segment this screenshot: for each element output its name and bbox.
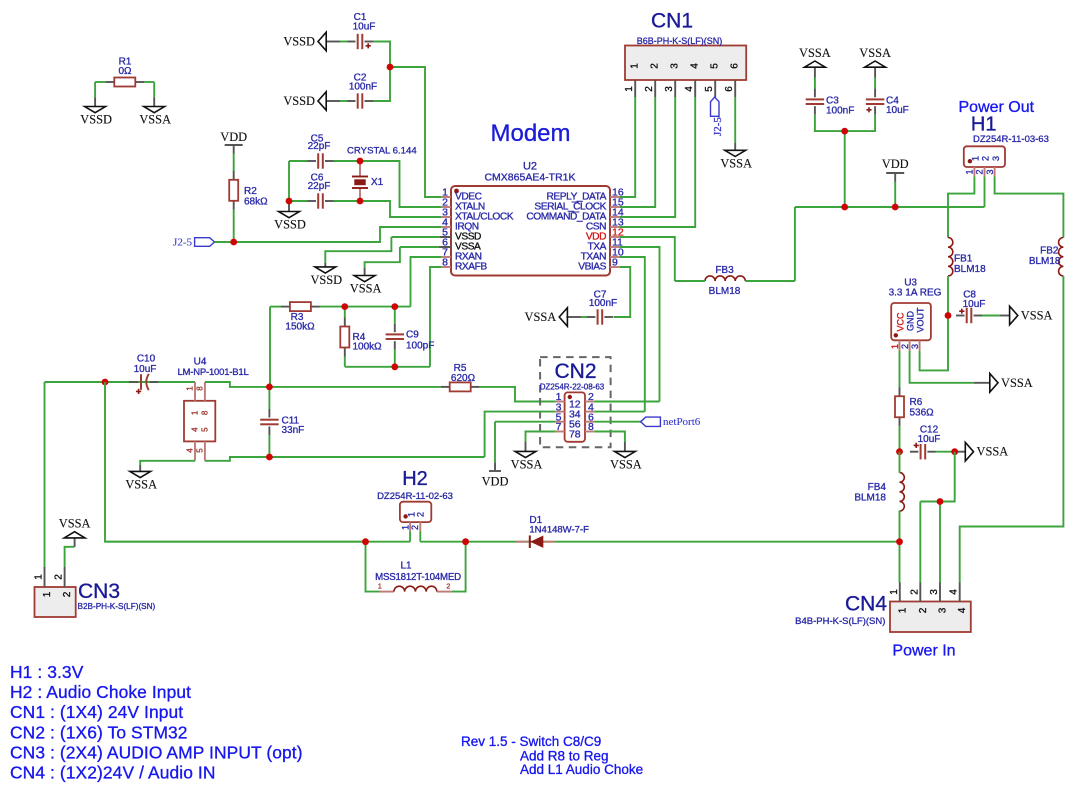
svg-text:2: 2 (909, 589, 920, 595)
wire (394, 307, 396, 324)
junction (896, 448, 903, 455)
svg-text:1: 1 (965, 169, 975, 174)
svg-text:CRYSTAL 6.144: CRYSTAL 6.144 (347, 146, 417, 157)
svg-text:Modem: Modem (490, 120, 570, 147)
global label netPort6 (641, 417, 661, 426)
svg-text:X1: X1 (371, 177, 384, 188)
wire (215, 227, 442, 242)
wire (bottom row left) (105, 541, 410, 543)
svg-text:Power In: Power In (892, 642, 955, 659)
svg-text:VSSA: VSSA (1021, 309, 1053, 323)
svg-text:DZ254R-11-03-63: DZ254R-11-03-63 (973, 134, 1049, 145)
wire (620, 247, 660, 402)
svg-text:100nF: 100nF (349, 82, 377, 93)
junction (937, 498, 944, 505)
power VDD (below CN2) (489, 470, 501, 472)
svg-text:VSSA: VSSA (1001, 376, 1033, 390)
capacitor C3 (814, 89, 816, 98)
svg-text:1: 1 (624, 86, 635, 92)
svg-text:100kΩ: 100kΩ (353, 342, 383, 353)
crystal X1 (359, 161, 361, 176)
svg-text:5: 5 (704, 86, 715, 92)
wire (CN2 pin5 to VDD) (495, 421, 555, 423)
svg-text:2: 2 (900, 344, 910, 349)
wire (936, 451, 955, 453)
svg-text:DZ254R-22-08-63: DZ254R-22-08-63 (540, 383, 605, 392)
wire (899, 426, 901, 452)
svg-text:2: 2 (975, 169, 985, 174)
svg-text:VDD: VDD (482, 475, 509, 489)
ground VSSA (C3) (814, 67, 816, 77)
svg-text:RXAFB: RXAFB (455, 262, 487, 273)
svg-text:6: 6 (724, 86, 735, 92)
ferrite bead FB3 (705, 276, 745, 281)
svg-text:4: 4 (684, 86, 695, 92)
ground VSSA (C4) (874, 67, 876, 77)
wire (270, 306, 281, 308)
svg-text:8: 8 (200, 410, 209, 415)
svg-text:3: 3 (985, 169, 995, 174)
ground VSSA (C8) (1010, 306, 1018, 325)
svg-text:2: 2 (981, 156, 991, 161)
resistor R1 (105, 81, 114, 83)
svg-text:150kΩ: 150kΩ (285, 321, 315, 332)
wire (334, 201, 442, 217)
svg-text:VBIAS: VBIAS (578, 262, 606, 273)
svg-text:10uF: 10uF (134, 364, 157, 375)
svg-text:1: 1 (42, 591, 53, 597)
svg-text:H1: H1 (971, 114, 997, 136)
wire (947, 276, 949, 316)
svg-text:VDD: VDD (220, 130, 247, 144)
power VDD (R2 top) (225, 144, 243, 146)
svg-text:VSSA: VSSA (799, 46, 831, 60)
svg-text:1N4148W-7-F: 1N4148W-7-F (529, 524, 589, 535)
capacitor C2 (347, 100, 356, 102)
wire (45, 381, 196, 383)
svg-text:R6: R6 (910, 397, 923, 408)
svg-text:netPort6: netPort6 (663, 416, 701, 428)
svg-text:4: 4 (690, 63, 701, 69)
svg-text:1: 1 (401, 525, 411, 530)
wire (899, 452, 901, 473)
svg-text:BLM18: BLM18 (854, 493, 886, 504)
junction (341, 303, 348, 310)
wire (C12 to CN4 gnd pins) (920, 452, 954, 502)
svg-text:7: 7 (556, 421, 562, 433)
svg-text:FB4: FB4 (868, 482, 887, 493)
svg-text:2: 2 (54, 574, 65, 580)
svg-text:4: 4 (191, 427, 200, 432)
svg-text:4: 4 (949, 589, 960, 595)
diode D1 (516, 541, 529, 543)
wire (734, 97, 736, 143)
svg-text:1: 1 (890, 344, 900, 349)
wire (105, 382, 366, 542)
svg-text:J2-5: J2-5 (712, 117, 724, 136)
junction (387, 64, 394, 71)
wire (U4 pin8 jog) (205, 382, 270, 387)
svg-text:J2-5: J2-5 (173, 236, 192, 248)
wire (VDD row) (795, 206, 985, 208)
resistor R4 (344, 318, 346, 327)
ground VSSA (U4 pin4) (139, 465, 141, 471)
wire (430, 267, 441, 367)
svg-text:CN2: CN2 (554, 360, 596, 383)
resistor R5 (441, 386, 450, 388)
svg-text:FB2: FB2 (1040, 245, 1059, 256)
ferrite bead FB1 (948, 238, 953, 277)
svg-text:BLM18: BLM18 (709, 286, 741, 297)
svg-text:VOUT: VOUT (916, 307, 926, 333)
wire (614, 267, 631, 317)
svg-text:VSSD: VSSD (274, 218, 306, 232)
wire (U4 pin5 jog) (205, 457, 270, 461)
power VDD (right) (886, 172, 904, 174)
svg-text:CN4: CN4 (845, 592, 887, 615)
ground VSSA (CN3 pin2) (74, 538, 76, 547)
ground VSSA (C12) (965, 442, 973, 461)
svg-text:1: 1 (630, 63, 641, 69)
svg-text:10uF: 10uF (963, 299, 986, 310)
wire (409, 531, 411, 541)
junction (945, 312, 952, 319)
wire (233, 210, 235, 242)
svg-text:4: 4 (957, 607, 968, 613)
svg-text:BLM18: BLM18 (954, 264, 986, 275)
junction (102, 379, 109, 386)
wire (814, 78, 816, 90)
wire (269, 307, 271, 387)
svg-text:3: 3 (670, 63, 681, 69)
capacitor C4 (874, 89, 876, 98)
wire (bottom row right) (420, 541, 899, 543)
wire (C11 bottom row) (269, 456, 484, 458)
svg-text:3: 3 (929, 589, 940, 595)
resistor R2 (233, 161, 235, 171)
ground VSSA (CN2 pin8) (624, 442, 626, 451)
wire (982, 315, 1000, 317)
svg-text:1: 1 (897, 607, 908, 613)
wire (899, 351, 901, 388)
wire (815, 115, 875, 131)
svg-text:5: 5 (195, 448, 204, 453)
global label J2-5 (IRQN) (195, 238, 215, 247)
svg-text:3: 3 (938, 607, 949, 613)
wire (526, 432, 556, 443)
svg-text:4: 4 (186, 448, 195, 453)
svg-text:H2: H2 (402, 468, 428, 490)
svg-text:1: 1 (971, 156, 981, 161)
svg-text:22pF: 22pF (308, 141, 331, 152)
svg-text:VSSD: VSSD (80, 113, 112, 127)
svg-text:BLM18: BLM18 (1029, 256, 1061, 267)
power symbol VSSA (C7) (566, 316, 581, 318)
junction (841, 128, 848, 135)
wire (269, 386, 440, 388)
svg-text:536Ω: 536Ω (910, 408, 935, 419)
global label J2-5 (CN1 pin5) (711, 97, 720, 116)
ground VSSD (crystal) (288, 201, 290, 212)
svg-text:9: 9 (612, 257, 618, 269)
svg-text:VSSA: VSSA (720, 157, 752, 171)
capacitor C7 (587, 316, 596, 318)
svg-text:1: 1 (889, 589, 900, 595)
ground VSSD (R1 pin1) (94, 97, 96, 106)
ground VSSA (U3 GND) (990, 374, 998, 393)
wire (94, 82, 96, 97)
capacitor C5 (308, 160, 317, 162)
junction (357, 158, 364, 165)
junction (841, 204, 848, 211)
svg-text:3: 3 (910, 344, 920, 349)
junction (362, 538, 369, 545)
svg-text:GND: GND (906, 311, 916, 332)
svg-text:2: 2 (62, 591, 73, 597)
wire (H1 pin3) (995, 176, 1064, 237)
wire (H1 pin2) (984, 176, 986, 207)
svg-text:LM-NP-1001-B1L: LM-NP-1001-B1L (177, 367, 248, 378)
wire (365, 247, 400, 268)
ground VSSA (R1 pin2) (153, 97, 155, 106)
svg-text:5: 5 (200, 427, 209, 432)
resistor R3 (281, 306, 290, 308)
svg-text:FB1: FB1 (954, 254, 973, 265)
svg-text:CN3: CN3 (78, 580, 120, 603)
svg-text:2: 2 (410, 525, 420, 530)
svg-text:3: 3 (991, 156, 1001, 161)
ground VSSA (CN2 pin7) (525, 442, 527, 451)
wire (95, 81, 105, 83)
svg-text:8: 8 (588, 421, 594, 433)
svg-text:68kΩ: 68kΩ (244, 197, 268, 208)
wire (CN3 pin2) (65, 547, 75, 567)
wire (345, 366, 430, 368)
svg-text:Rev 1.5 - Switch C8/C9: Rev 1.5 - Switch C8/C9 (461, 734, 601, 749)
svg-text:2: 2 (446, 584, 450, 591)
svg-text:R2: R2 (244, 186, 257, 197)
svg-text:10uF: 10uF (353, 22, 376, 33)
svg-text:VSSA: VSSA (125, 478, 157, 492)
ground VSSA (U2 pin6) (364, 268, 366, 276)
svg-text:C9: C9 (406, 329, 419, 340)
wire (U4 pin4 to gnd) (140, 461, 195, 465)
svg-text:0Ω: 0Ω (118, 66, 132, 77)
ferrite bead FB4 (900, 473, 905, 512)
capacitor C10 (129, 381, 138, 383)
wire (400, 246, 439, 248)
wire (844, 131, 846, 207)
wire (874, 78, 876, 90)
wire (FB2 to CN4 pin4) (960, 276, 1064, 583)
capacitor C12 (910, 451, 919, 453)
transformer U4 (184, 401, 215, 442)
capacitor C8 (956, 315, 965, 317)
svg-text:1: 1 (186, 386, 195, 391)
wire (CN2 pin3 from C11 row) (485, 412, 556, 457)
svg-text:CN3 : (2X4) AUDIO AMP INPUT (o: CN3 : (2X4) AUDIO AMP INPUT (opt) (10, 742, 303, 762)
connector CN2 (540, 357, 611, 447)
svg-text:1: 1 (34, 574, 45, 580)
wire (373, 42, 390, 102)
svg-text:VDD: VDD (882, 157, 909, 171)
wire (344, 307, 346, 318)
svg-text:1: 1 (378, 584, 382, 591)
svg-text:DZ254R-11-02-63: DZ254R-11-02-63 (377, 491, 453, 502)
svg-text:CN1 : (1X4) 24V Input: CN1 : (1X4) 24V Input (10, 702, 183, 722)
svg-text:VSSA: VSSA (525, 310, 557, 324)
wire (334, 161, 442, 207)
svg-text:2: 2 (650, 63, 661, 69)
svg-text:6: 6 (730, 63, 741, 69)
op-amp U2 modem IC CMX865AE4-TR1K (451, 186, 610, 276)
svg-text:2: 2 (918, 607, 929, 613)
ground VSSD (U2 pin5) (324, 263, 326, 267)
junction (896, 538, 903, 545)
svg-text:2: 2 (416, 512, 426, 517)
svg-text:100nF: 100nF (589, 298, 617, 309)
svg-text:100nF: 100nF (826, 106, 854, 117)
svg-text:VSSD: VSSD (310, 273, 342, 287)
svg-text:FB3: FB3 (715, 265, 734, 276)
svg-text:L1: L1 (400, 561, 412, 572)
wire (325, 237, 391, 263)
svg-text:1: 1 (191, 410, 200, 415)
power symbol VSSD (C2) (326, 100, 340, 102)
svg-text:100pF: 100pF (406, 341, 434, 352)
connector CN3 (35, 587, 76, 617)
svg-text:C10: C10 (137, 353, 156, 364)
svg-text:VSSD: VSSD (283, 94, 315, 108)
svg-text:VSSA: VSSA (59, 517, 91, 531)
svg-text:H1 : 3.3V: H1 : 3.3V (10, 662, 84, 682)
capacitor C1 (347, 41, 356, 43)
wire (U3 GND) (910, 351, 974, 383)
svg-text:VSSA: VSSA (977, 445, 1009, 459)
wire (391, 236, 439, 238)
wire (390, 67, 441, 197)
junction (230, 239, 237, 246)
wire (289, 160, 308, 162)
svg-text:Add L1 Audio Choke: Add L1 Audio Choke (520, 762, 643, 777)
wire (411, 257, 442, 307)
svg-text:8: 8 (442, 257, 448, 269)
svg-text:2: 2 (644, 86, 655, 92)
svg-text:VSSD: VSSD (283, 35, 315, 49)
resistor R6 (899, 387, 901, 396)
wire (620, 257, 645, 412)
svg-text:CMX865AE4-TR1K: CMX865AE4-TR1K (484, 172, 575, 184)
svg-text:620Ω: 620Ω (451, 373, 476, 384)
svg-text:VSSA: VSSA (139, 113, 171, 127)
svg-text:VSSA: VSSA (511, 458, 543, 472)
wire (left column) (44, 382, 46, 567)
wire (H1 pin1) (948, 176, 974, 237)
junction (266, 384, 273, 391)
capacitor C6 (308, 200, 317, 202)
svg-text:3.3 1A REG: 3.3 1A REG (889, 288, 942, 299)
svg-text:VSSA: VSSA (610, 458, 642, 472)
svg-text:10uF: 10uF (886, 105, 909, 116)
svg-text:33nF: 33nF (282, 425, 305, 436)
wire (268, 387, 270, 409)
connector CN1 (625, 46, 746, 81)
wire (620, 237, 675, 281)
svg-text:B2B-PH-K-S(LF)(SN): B2B-PH-K-S(LF)(SN) (78, 602, 156, 611)
ferrite bead FB2 (1059, 238, 1064, 277)
svg-text:10uF: 10uF (918, 434, 941, 445)
power symbol VSSD (C1) (326, 41, 340, 43)
wire (CN1 pins to U2) (620, 97, 635, 197)
wire (U3 VOUT) (920, 316, 948, 371)
wire (CN2 right) (594, 401, 659, 403)
inductor L1 (366, 542, 380, 592)
svg-text:VSSA: VSSA (350, 282, 382, 296)
svg-text:B4B-PH-K-S(LF)(SN): B4B-PH-K-S(LF)(SN) (795, 616, 885, 627)
capacitor C9 (394, 324, 396, 333)
svg-text:5: 5 (710, 63, 721, 69)
ground VSSA (CN1 pin6) (734, 143, 736, 150)
svg-text:CN2 : (1X6) To STM32: CN2 : (1X6) To STM32 (10, 722, 188, 742)
connector CN4 (890, 602, 971, 633)
svg-text:MSS1812T-104MED: MSS1812T-104MED (375, 572, 461, 583)
svg-text:B6B-PH-K-S(LF)(SN): B6B-PH-K-S(LF)(SN) (637, 36, 723, 46)
svg-text:VCC: VCC (896, 312, 906, 332)
svg-text:VSSA: VSSA (859, 46, 891, 60)
svg-text:CN1: CN1 (651, 10, 693, 33)
capacitor C11 (268, 409, 270, 418)
svg-text:78: 78 (569, 428, 581, 440)
svg-text:22pF: 22pF (308, 181, 331, 192)
svg-text:H2 : Audio Choke Input: H2 : Audio Choke Input (10, 682, 191, 702)
svg-text:3: 3 (664, 86, 675, 92)
svg-text:8: 8 (195, 386, 204, 391)
svg-text:CN4 : (1X2)24V / Audio IN: CN4 : (1X2)24V / Audio IN (10, 763, 216, 783)
